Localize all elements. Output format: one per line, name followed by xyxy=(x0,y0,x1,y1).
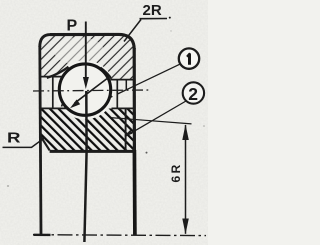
outer ring groove shoulder left xyxy=(47,67,69,78)
2R period xyxy=(169,17,171,19)
outer ring hatched cross-section xyxy=(40,35,134,80)
dimension arrow top xyxy=(182,124,189,140)
hatch fade overlay xyxy=(54,37,104,65)
callout circle 2 xyxy=(183,82,204,103)
dimension extension line xyxy=(111,118,192,124)
speck right of bearing xyxy=(146,152,148,154)
right edge line xyxy=(133,48,136,150)
right race shoulder bottom xyxy=(112,107,135,109)
axis foot tick xyxy=(34,234,51,236)
dimension arrow bottom xyxy=(182,219,189,235)
callout circle 1 xyxy=(179,48,199,68)
leader 1 xyxy=(118,64,180,94)
right race shoulder top xyxy=(111,79,135,81)
svg-text:P: P xyxy=(67,18,78,35)
race groove clearance band xyxy=(55,60,114,119)
2R leader xyxy=(124,20,141,42)
left edge / shaft face line xyxy=(40,46,41,235)
svg-text:2: 2 xyxy=(188,84,198,104)
inner ring right face xyxy=(125,109,127,150)
stray speck right margin xyxy=(203,125,205,127)
outer ring top-right corner xyxy=(119,34,134,49)
force P arrow shaft xyxy=(85,22,87,79)
2R underline xyxy=(140,18,168,20)
ball radius arrowhead xyxy=(70,100,80,109)
centre vertical line below ball xyxy=(84,91,86,242)
svg-text:2R: 2R xyxy=(143,2,162,19)
outer ring groove shoulder right xyxy=(101,68,112,79)
stray speck lower-left margin xyxy=(7,185,9,187)
inner ring bottom line xyxy=(50,150,135,153)
outer ring land mark xyxy=(125,81,127,90)
left race shoulder side xyxy=(52,77,54,109)
leader 2 xyxy=(126,101,186,136)
right race shoulder side xyxy=(116,80,118,109)
right edge lower part xyxy=(133,150,137,235)
inner ring hatched cross-section xyxy=(40,109,134,151)
force P arrowhead xyxy=(83,77,89,89)
left race shoulder bottom xyxy=(41,107,68,109)
dimension line 6R xyxy=(185,125,187,234)
stray speck above circle 1 xyxy=(170,30,171,31)
horizontal centreline through ball xyxy=(33,90,151,91)
inner ring chamfer xyxy=(40,135,50,150)
outer ring top edge xyxy=(50,33,119,36)
svg-text:R: R xyxy=(7,130,21,147)
ball radius line xyxy=(75,78,109,104)
paper background xyxy=(0,0,208,245)
shaft axis centreline xyxy=(33,234,206,237)
digit 1 xyxy=(187,54,189,64)
outer ring top-left corner xyxy=(40,35,50,47)
leader 2 arrowhead xyxy=(124,130,132,136)
R leader xyxy=(3,138,45,148)
svg-text:6R: 6R xyxy=(169,162,183,182)
ball B xyxy=(59,64,110,115)
left race shoulder top xyxy=(41,76,63,78)
inner ring groove arc xyxy=(62,86,113,106)
